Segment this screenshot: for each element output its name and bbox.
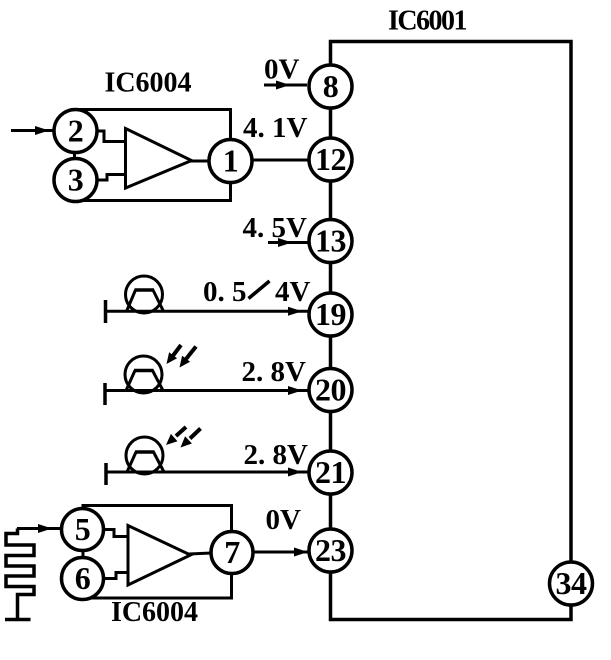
svg-text:2: 2 (68, 113, 84, 149)
svg-text:3: 3 (68, 162, 84, 198)
wire pin6 to -input (103, 573, 128, 579)
op-amp U3 (IC6004 bottom) body (83, 506, 232, 599)
pin 1 (209, 140, 252, 183)
svg-text:0. 5: 0. 5 (203, 276, 247, 308)
svg-text:0V: 0V (266, 504, 302, 536)
pin 23 (309, 529, 352, 572)
wire pin1 to pin12 (252, 159, 309, 162)
svg-text:13: 13 (315, 223, 346, 259)
svg-text:7: 7 (224, 534, 240, 570)
wire arrow pin7 to pin 23 (253, 548, 309, 557)
wire U2 output to pin 1 (190, 160, 210, 163)
pin 5 (62, 509, 104, 551)
pin 34 (550, 562, 593, 605)
terminal tick Q3 (104, 463, 108, 485)
wire arrow into pin 13 (268, 238, 308, 247)
phototransistor Q1 (126, 276, 164, 313)
svg-text:4. 5V: 4. 5V (243, 212, 308, 244)
svg-text:1: 1 (223, 143, 239, 179)
svg-text:2. 8V: 2. 8V (244, 439, 309, 471)
svg-text:21: 21 (315, 454, 346, 490)
svg-text:0V: 0V (264, 54, 300, 86)
pin 8 (309, 65, 352, 108)
svg-text:IC6004: IC6004 (111, 597, 198, 628)
svg-text:23: 23 (315, 532, 346, 568)
phototransistor Q3 (126, 437, 164, 474)
svg-text:8: 8 (323, 68, 339, 104)
wire arrow into pin 19 (106, 307, 310, 316)
op-amp U2 (IC6004 top) body (75, 110, 231, 201)
wire U3 output to pin 7 (189, 553, 212, 554)
pin 20 (309, 369, 352, 412)
light arrows into Q2 (167, 345, 197, 368)
svg-text:IC6001: IC6001 (388, 6, 467, 37)
op-amp U1 (IC6001) body (331, 42, 572, 620)
wire arrow into pin 8 (264, 81, 307, 90)
wire pin3 to -input (96, 175, 126, 181)
wire arrow into pin 20 (105, 386, 309, 395)
pin 19 (309, 293, 352, 336)
wire arrow into pin 21 (106, 468, 309, 477)
pin 12 (309, 138, 352, 181)
ground (5, 618, 31, 622)
svg-text:20: 20 (315, 372, 346, 408)
node 0.5/4V label (203, 276, 311, 308)
svg-text:IC6004: IC6004 (104, 67, 191, 98)
wire pin2 to +input (96, 131, 126, 142)
svg-text:4. 1V: 4. 1V (243, 112, 308, 144)
signal source meander (6, 529, 34, 620)
wire arrow into pin 2 (11, 126, 54, 135)
phototransistor Q2 (125, 356, 163, 393)
pin 13 (309, 220, 352, 263)
pin 21 (309, 451, 352, 494)
wire arrow into pin 5 (17, 524, 62, 533)
pin 7 (211, 532, 253, 574)
svg-text:12: 12 (315, 141, 346, 177)
svg-text:6: 6 (75, 560, 91, 596)
svg-text:5: 5 (75, 511, 91, 547)
terminal tick Q2 (103, 383, 107, 405)
pin 3 (54, 159, 97, 202)
svg-text:4V: 4V (275, 276, 311, 308)
light arrows into Q3 (166, 427, 201, 448)
svg-text:19: 19 (315, 296, 346, 332)
op-amp U2 triangle (126, 129, 192, 189)
op-amp U3 triangle (128, 526, 191, 586)
pin 2 (54, 110, 97, 153)
pin 6 (62, 558, 104, 600)
svg-text:34: 34 (556, 565, 588, 601)
wire pin5 to +input (103, 530, 128, 537)
terminal tick Q1 (104, 300, 108, 323)
svg-text:2. 8V: 2. 8V (242, 356, 307, 388)
